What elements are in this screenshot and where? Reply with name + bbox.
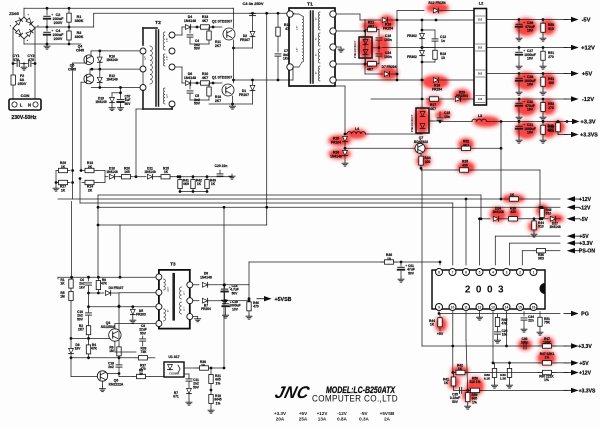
capacitor C27 1000uF 16V (518, 48, 520, 52)
inductor L3 (440, 121, 472, 123)
wire +5V sense row (493, 362, 567, 364)
ground (248, 314, 250, 316)
wire bottom rail (24, 43, 81, 45)
wire PS-ON (522, 250, 534, 252)
svg-text:0.8A: 0.8A (337, 417, 347, 422)
wire (278, 79, 293, 81)
svg-text:100n: 100n (384, 55, 392, 59)
svg-text:10V: 10V (232, 307, 239, 311)
resistor R52 4K7 (458, 147, 462, 149)
svg-text:3.5T: 3.5T (297, 25, 299, 30)
resistor R20 165 (119, 176, 122, 178)
svg-text:330K: 330K (75, 35, 84, 39)
input arrow -5V (575, 218, 580, 220)
resistor R61 100 (542, 74, 544, 78)
svg-text:270: 270 (548, 106, 554, 110)
capacitor C20 22n (180, 176, 220, 178)
capacitor C12 1n (422, 29, 435, 31)
svg-text:1%: 1% (216, 401, 221, 405)
svg-text:+5VSB: +5VSB (380, 411, 395, 416)
svg-text:1N4148: 1N4148 (144, 170, 156, 174)
wire (223, 207, 225, 285)
resistor R18 2K7 (208, 83, 210, 87)
diode D11 1N4148 (134, 176, 146, 178)
input arrow +3.3V (575, 242, 580, 244)
svg-text:P3R10C60CT: P3R10C60CT (410, 114, 414, 132)
diode R18 FR154 (382, 18, 387, 23)
svg-text:C20 22n: C20 22n (215, 164, 228, 168)
wire +12V (487, 47, 568, 49)
ground (336, 46, 341, 48)
wire T1 center down (344, 86, 346, 134)
ground (210, 408, 212, 410)
diode R16 1N4149 (97, 57, 102, 62)
JNC logo (273, 382, 312, 402)
svg-text:430: 430 (510, 210, 516, 214)
svg-text:502: 502 (478, 72, 483, 76)
svg-text:1N4148: 1N4148 (549, 225, 561, 229)
svg-text:502: 502 (478, 18, 483, 22)
svg-text:50V: 50V (194, 47, 201, 51)
resistor R6 1M (118, 307, 120, 345)
wire bus 1 (98, 194, 481, 196)
svg-text:2K: 2K (88, 165, 93, 169)
svg-text:COSMO: COSMO (169, 372, 179, 376)
transformer T3 pins (156, 274, 162, 280)
capacitor C4 230uF 200V (46, 27, 48, 31)
svg-text:1K: 1K (61, 188, 66, 192)
wire +3.3VS sense row (454, 389, 568, 391)
capacitor C5 2n2 50V (189, 83, 191, 89)
wire top rail (24, 7, 234, 9)
wire -5V (487, 19, 568, 21)
svg-text:FR204: FR204 (201, 307, 211, 311)
output arrow PG (564, 313, 571, 315)
resistor 1K (505, 198, 510, 200)
diode D24 1N4148 (493, 216, 498, 221)
svg-text:+5V: +5V (579, 234, 589, 240)
svg-text:PG: PG (581, 312, 589, 318)
resistor R40 1.3K (509, 363, 511, 369)
svg-text:4R7: 4R7 (367, 67, 373, 71)
ground (188, 400, 190, 402)
svg-text:+3.3V: +3.3V (579, 241, 593, 247)
rectifier P3R10C90CT (336, 30, 365, 32)
svg-text:-12V: -12V (337, 411, 348, 416)
wire (71, 357, 119, 359)
svg-text:T1: T1 (307, 2, 313, 8)
svg-text:16V: 16V (527, 83, 534, 87)
svg-text:1.3K: 1.3K (500, 376, 507, 380)
svg-text:11: 11 (464, 306, 468, 310)
diode R12 FR154 (397, 10, 424, 12)
ground (23, 64, 25, 66)
svg-text:SS1250A: SS1250A (101, 325, 116, 329)
svg-text:+3.3V: +3.3V (274, 411, 287, 416)
input arrow +5V (575, 235, 580, 237)
svg-text:1n: 1n (441, 39, 445, 43)
svg-text:L3: L3 (478, 114, 482, 118)
wire +5V sense (495, 235, 560, 237)
svg-text:10: 10 (441, 56, 445, 60)
rectifier P3R10C60CT (421, 99, 423, 108)
output arrow +3.3V (565, 121, 572, 123)
svg-text:1N4148: 1N4148 (492, 210, 504, 214)
svg-text:+3.3V: +3.3V (580, 120, 595, 126)
diode R12 1N4149 (97, 77, 102, 82)
svg-text:100: 100 (425, 160, 431, 164)
svg-text:+5V: +5V (299, 411, 308, 416)
wire (452, 312, 454, 373)
output arrow +12V (564, 47, 571, 49)
output arrow +5V (564, 362, 571, 364)
svg-text:COMPUTER CO.,LTD: COMPUTER CO.,LTD (312, 393, 398, 404)
svg-text:103: 103 (478, 97, 483, 101)
svg-text:2: 2 (519, 271, 521, 275)
wire AC line N (34, 28, 36, 99)
ground (494, 383, 496, 385)
wire to +5VSB (225, 284, 249, 286)
svg-text:470: 470 (13, 58, 19, 62)
wire emitter Q5 (81, 81, 85, 83)
wire collector rail Q4 (91, 50, 143, 52)
svg-text:1K: 1K (458, 367, 463, 371)
svg-text:C945: C945 (68, 67, 76, 71)
svg-text:1%: 1% (472, 400, 477, 404)
svg-text:JNC: JNC (273, 382, 312, 402)
diode D19 zener (111, 93, 113, 97)
wire +3.3V sense (510, 242, 560, 244)
svg-text:16: 16 (532, 306, 536, 310)
svg-text:R12 FR154: R12 FR154 (428, 1, 445, 5)
svg-text:510: 510 (548, 27, 554, 31)
transformer T2 pins (169, 32, 175, 38)
resistor R14 2K (82, 182, 85, 184)
svg-text:50V: 50V (408, 271, 415, 275)
ground (542, 90, 544, 92)
resistor R34 100 (420, 153, 422, 156)
svg-text:3K3: 3K3 (538, 257, 544, 261)
svg-text:12T: 12T (145, 55, 147, 60)
resistor R41 4K9 (179, 175, 182, 178)
resistor R39 9.1K (494, 363, 496, 369)
svg-text:50V: 50V (140, 331, 147, 335)
ground (120, 106, 122, 108)
svg-text:1N4149: 1N4149 (106, 58, 118, 62)
diode D10 1N4148 (109, 174, 114, 179)
resistor R44 1K (438, 312, 441, 315)
capacitor C7 3n3 1kV (277, 50, 279, 52)
inductor L4 (344, 133, 347, 136)
svg-text:1N4148: 1N4148 (184, 76, 196, 80)
svg-text:50V: 50V (194, 102, 201, 106)
ground (533, 232, 535, 234)
svg-text:3.5T: 3.5T (167, 37, 169, 42)
resistor R1 1K (57, 277, 59, 279)
svg-text:4: 4 (492, 271, 494, 275)
transformer T1 secondary pins (330, 11, 336, 17)
capacitor C61 47uF 50V (400, 261, 403, 264)
svg-text:9.1K: 9.1K (484, 376, 491, 380)
resistor R13 4K7 (195, 26, 201, 28)
svg-text:330K: 330K (75, 19, 84, 23)
diode D3 FR107 (89, 292, 105, 294)
resistor R46 470 (248, 299, 250, 302)
svg-text:L2: L2 (479, 1, 484, 6)
svg-text:470: 470 (140, 367, 146, 371)
wire emitter Q4 (73, 62, 86, 64)
ground (542, 138, 544, 140)
svg-text:+5V: +5V (437, 332, 444, 336)
capacitor C57 1uF 50V (120, 93, 122, 99)
resistor R29 1K (56, 170, 59, 172)
ground below pin 12 (479, 312, 481, 316)
svg-text:470: 470 (253, 305, 259, 309)
svg-text:L4: L4 (355, 127, 359, 131)
ground (229, 176, 232, 178)
ground (132, 318, 134, 320)
wire +12V path (382, 47, 422, 49)
ground (193, 316, 198, 318)
svg-text:10: 10 (451, 306, 455, 310)
resistor R52 270 (542, 99, 544, 103)
resistor R51 270 (542, 48, 544, 52)
wire mid rail Q5 (90, 68, 143, 70)
svg-text:1K: 1K (61, 165, 66, 169)
svg-text:50V: 50V (452, 400, 459, 404)
svg-text:2K7: 2K7 (215, 44, 221, 48)
svg-text:10n: 10n (444, 115, 450, 119)
svg-text:430: 430 (462, 163, 468, 167)
resistor R42 1K (453, 372, 456, 374)
capacitor C19 100n (378, 30, 380, 37)
svg-text:1N4149: 1N4149 (106, 78, 118, 82)
wire (89, 306, 156, 308)
svg-text:1%: 1% (216, 381, 221, 385)
svg-text:50V: 50V (77, 317, 84, 321)
output arrow +3.3VS (557, 133, 559, 135)
resistor R30 430 (504, 218, 509, 220)
bridge rectifier ZD05 (13, 17, 35, 39)
wire AC line L (12, 28, 14, 75)
svg-text:100n: 100n (384, 38, 392, 42)
capacitor C34 100n (378, 48, 380, 52)
ground (518, 115, 520, 117)
ground (518, 138, 520, 140)
svg-text:-5V: -5V (580, 217, 589, 223)
wire (397, 19, 474, 21)
wire bus 3 (80, 202, 453, 204)
svg-text:D7 FR204: D7 FR204 (382, 65, 397, 69)
svg-text:12T: 12T (167, 93, 169, 98)
diode D12 FR204 (193, 300, 199, 302)
wire (97, 195, 99, 277)
transistor Q6 KN2222A (97, 371, 107, 381)
svg-text:+5V: +5V (582, 72, 593, 78)
wire (232, 96, 234, 104)
resistor R47 100K (538, 345, 543, 347)
svg-text:100T: 100T (168, 286, 170, 292)
resistor R27 1K (56, 182, 59, 184)
wire +3.3V sense down (500, 122, 502, 149)
wire (420, 167, 423, 170)
svg-text:FR154: FR154 (383, 26, 393, 30)
svg-text:73K: 73K (141, 350, 148, 354)
output arrow +5V (564, 73, 571, 75)
svg-text:11T: 11T (184, 307, 186, 311)
wire (429, 120, 434, 122)
svg-text:FR154: FR154 (432, 87, 442, 91)
svg-text:3: 3 (506, 271, 508, 275)
svg-text:+12V: +12V (317, 411, 329, 416)
wire (175, 66, 182, 68)
svg-text:4K7: 4K7 (202, 76, 208, 80)
red highlight marks (328, 3, 565, 402)
svg-text:-12V: -12V (582, 97, 594, 103)
transistor Q7 BD45102 (415, 143, 425, 153)
svg-text:1N4148: 1N4148 (200, 275, 212, 279)
svg-text:0.3A: 0.3A (359, 417, 369, 422)
output arrow -12V (564, 98, 571, 100)
svg-text:Q1 STD2007: Q1 STD2007 (212, 76, 232, 80)
svg-text:22n: 22n (528, 319, 534, 323)
capacitor C29 470uF 16V (518, 20, 520, 24)
svg-text:FR302: FR302 (407, 55, 417, 59)
resistor R44 510 (533, 219, 535, 221)
svg-text:165: 165 (124, 170, 130, 174)
diode R15 FR104 (343, 136, 348, 141)
svg-text:50V: 50V (193, 385, 200, 389)
wire pin drops (439, 262, 441, 265)
svg-text:4K7: 4K7 (430, 107, 436, 111)
svg-text:15: 15 (518, 306, 522, 310)
ground (518, 64, 520, 66)
svg-text:FR203: FR203 (136, 313, 146, 317)
svg-text:4K9: 4K9 (183, 182, 189, 186)
wire bus C drop to pin 7 (452, 203, 454, 265)
wire PG (438, 312, 440, 314)
diode R26 1N4148 (343, 150, 348, 155)
wire +12V sense row (453, 372, 567, 374)
resistor R47 22K1 1% (538, 362, 543, 364)
svg-text:N: N (28, 103, 31, 108)
svg-text:+3.3V: +3.3V (578, 344, 592, 350)
diode D27 1N4148 (550, 216, 555, 221)
svg-text:Q2 STD2007: Q2 STD2007 (212, 20, 232, 24)
svg-text:1K: 1K (60, 282, 65, 286)
ground (232, 104, 234, 106)
resistor R51 75K (539, 314, 541, 318)
svg-text:18V: 18V (75, 347, 82, 351)
wire (233, 8, 235, 28)
wire (421, 62, 423, 99)
svg-text:FR302: FR302 (407, 34, 417, 38)
svg-text:CON: CON (21, 93, 30, 98)
diode R19 FR154 (336, 79, 424, 81)
svg-text:16V: 16V (527, 108, 534, 112)
svg-text:50V: 50V (125, 102, 132, 106)
svg-text:FR107: FR107 (240, 38, 250, 42)
capacitor C15 10n (429, 120, 440, 122)
wire vertical from Q1 area (266, 13, 268, 225)
capacitor C6 2n2 1kV (88, 277, 90, 281)
wire -12V (539, 206, 542, 209)
capacitor C30 100n (523, 343, 525, 349)
svg-text:9: 9 (438, 306, 440, 310)
capacitor C16 1000uF 10V (225, 301, 227, 303)
svg-text:6: 6 (465, 271, 467, 275)
input arrow -12V (575, 206, 580, 208)
diode FR302 upper (421, 20, 423, 33)
wire (180, 191, 207, 193)
capacitor C24 10n (495, 331, 501, 333)
svg-text:8: 8 (438, 271, 440, 275)
svg-text:10: 10 (387, 257, 391, 261)
wire T3 pin4 to Q3 (115, 323, 156, 325)
resistor R59 665 1% (467, 390, 469, 392)
resistor R14 47 (277, 13, 279, 27)
capacitor C35 0.22uF 50V (459, 387, 461, 393)
svg-text:510: 510 (538, 225, 544, 229)
svg-text:2003: 2003 (465, 285, 509, 296)
svg-text:12: 12 (478, 306, 482, 310)
input arrow +12V (575, 198, 580, 200)
capacitor C28 1000uF 16V (518, 74, 520, 78)
output arrow +3.3V (564, 345, 571, 347)
svg-text:1kV: 1kV (79, 285, 86, 289)
resistor R15 1K (159, 176, 161, 178)
diode D9 1N4148 (193, 284, 199, 286)
svg-text:D3 FR107: D3 FR107 (109, 286, 124, 290)
svg-text:270: 270 (548, 55, 554, 59)
wire T2 bottom (142, 91, 144, 110)
output arrow -5V (564, 19, 571, 21)
svg-text:1%: 1% (545, 356, 550, 360)
resistor R17 4K7 (371, 98, 424, 100)
resistor R8 39 (133, 376, 137, 378)
ground (111, 106, 113, 108)
resistor R35 430 (421, 169, 456, 171)
svg-text:L: L (20, 103, 23, 108)
wire lower rail (91, 87, 143, 89)
ground (542, 36, 544, 38)
svg-text:1: 1 (533, 271, 535, 275)
capacitor C32 470uF 16V (518, 99, 520, 102)
svg-text:2A: 2A (384, 417, 391, 422)
resistor R43 510 (541, 207, 543, 208)
wire -5V path (336, 13, 360, 15)
svg-text:510: 510 (546, 212, 552, 216)
resistor R23 10 (422, 47, 435, 49)
resistor R5 1M (70, 290, 72, 292)
wire +3.3V (501, 121, 567, 123)
svg-text:4K7: 4K7 (463, 143, 469, 147)
svg-text:16V: 16V (527, 57, 534, 61)
svg-text:50V: 50V (232, 291, 239, 295)
resistor R49 4K0 (542, 122, 544, 126)
svg-text:C945: C945 (76, 48, 84, 52)
diode D4 1N4148 (185, 25, 190, 30)
svg-text:1K: 1K (164, 170, 169, 174)
svg-text:1M: 1M (109, 349, 114, 353)
svg-text:1M: 1M (60, 295, 65, 299)
svg-text:-5V: -5V (581, 18, 590, 24)
svg-text:T3: T3 (170, 262, 176, 267)
resistor R11 2K7 (208, 27, 210, 31)
ground (542, 115, 544, 117)
wire mid rail to C7 (234, 79, 279, 81)
svg-text:+12V: +12V (579, 197, 592, 203)
